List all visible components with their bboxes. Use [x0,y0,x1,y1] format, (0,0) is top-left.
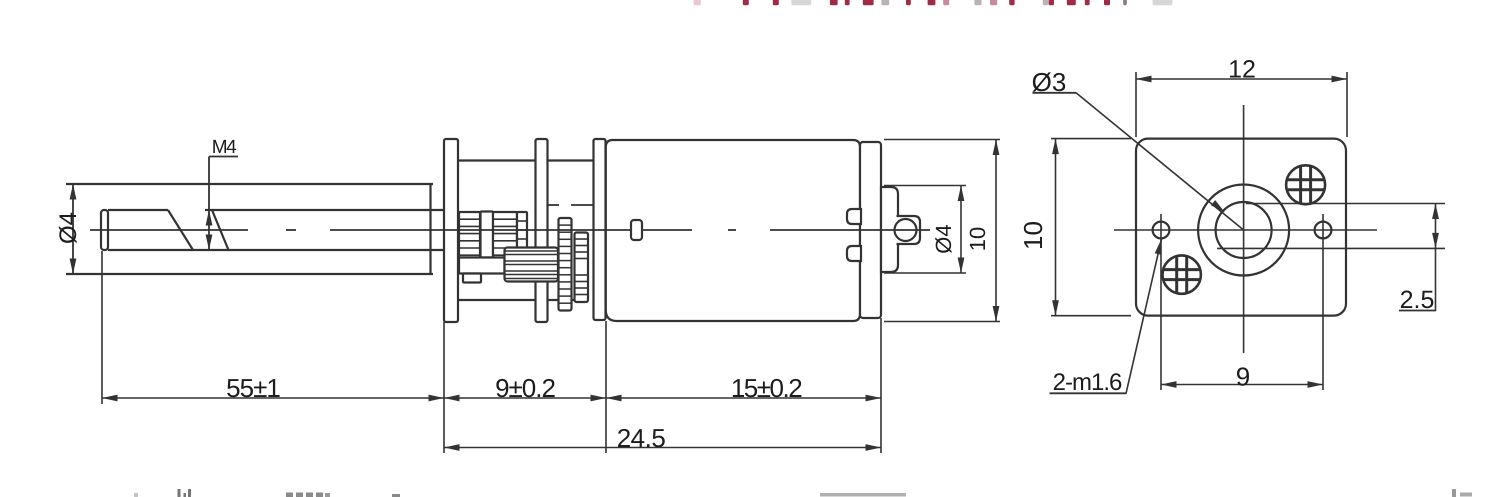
svg-text:M4: M4 [212,137,237,158]
svg-text:9±0.2: 9±0.2 [495,373,555,403]
svg-text:Ø4: Ø4 [55,212,82,244]
svg-text:10: 10 [1018,221,1048,250]
svg-text:9: 9 [1236,362,1250,392]
svg-text:12: 12 [1228,56,1256,84]
svg-text:24.5: 24.5 [617,423,666,453]
svg-text:2-m1.6: 2-m1.6 [1053,369,1122,396]
svg-text:15±0.2: 15±0.2 [731,373,802,403]
svg-text:Ø4: Ø4 [931,224,956,253]
svg-text:55±1: 55±1 [226,373,280,403]
svg-text:10: 10 [965,227,990,251]
